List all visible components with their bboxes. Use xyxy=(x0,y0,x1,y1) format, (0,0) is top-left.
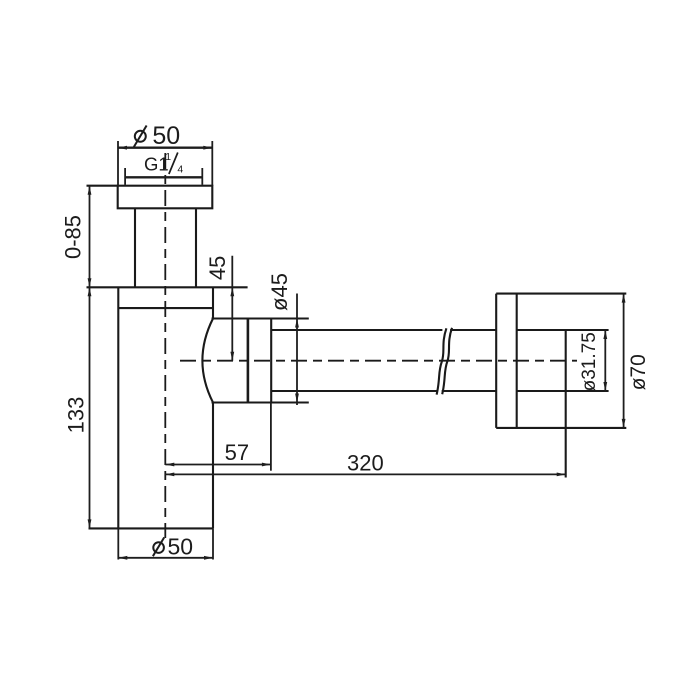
dim ø50 bottom xyxy=(118,528,213,559)
label G1 1/4 xyxy=(144,151,183,175)
dim 133 xyxy=(88,287,92,528)
label ø45 xyxy=(267,273,292,311)
svg-text:ø31.75: ø31.75 xyxy=(579,332,600,391)
svg-text:50: 50 xyxy=(152,122,180,150)
dim ø50 top xyxy=(118,141,212,186)
label ø70 xyxy=(627,354,650,390)
wall flange xyxy=(496,294,626,428)
vertical centerline xyxy=(164,153,166,538)
label ø31.75 xyxy=(579,332,600,391)
dim G1 1/4 thread xyxy=(125,168,202,185)
svg-text:0-85: 0-85 xyxy=(61,215,86,259)
pipe break symbol xyxy=(437,328,452,395)
svg-text:4: 4 xyxy=(177,163,183,175)
dim 57 xyxy=(165,403,271,471)
svg-text:ø45: ø45 xyxy=(267,273,292,311)
horizontal centerline xyxy=(180,360,577,362)
label 320 xyxy=(347,450,384,475)
trap top flange xyxy=(87,186,213,209)
label ø50 bottom xyxy=(153,534,193,560)
dim ø31.75 xyxy=(603,330,607,392)
label 0-85 xyxy=(61,215,86,259)
svg-text:45: 45 xyxy=(205,256,230,280)
dim 0-85 xyxy=(88,186,92,288)
arrows and dimension graphics xyxy=(88,141,626,560)
svg-text:50: 50 xyxy=(168,534,194,560)
dim 320 xyxy=(165,473,565,477)
label 133 xyxy=(64,397,89,434)
dim ø70 xyxy=(622,294,626,428)
svg-text:1: 1 xyxy=(165,151,171,163)
svg-text:320: 320 xyxy=(347,450,384,475)
svg-text:133: 133 xyxy=(64,397,89,434)
trap body top line xyxy=(87,286,248,288)
dim 45 vertical xyxy=(230,256,234,361)
horizontal outlet pipe xyxy=(271,330,608,391)
label 57 xyxy=(225,440,249,465)
svg-text:ø70: ø70 xyxy=(627,354,650,390)
svg-text:57: 57 xyxy=(225,440,249,465)
outlet nut xyxy=(202,319,308,403)
trap body xyxy=(89,287,214,528)
label 45 xyxy=(205,256,230,280)
threaded inlet pipe xyxy=(135,208,196,287)
dim ø45 xyxy=(295,294,299,406)
wall face line xyxy=(565,331,567,478)
label ø 50 top xyxy=(134,122,180,150)
